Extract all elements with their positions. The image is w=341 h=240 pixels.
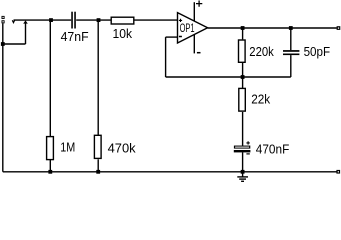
svg-text:1M: 1M <box>60 139 75 154</box>
svg-text:22k: 22k <box>251 92 271 107</box>
svg-text:OP1: OP1 <box>180 22 195 35</box>
svg-text:47nF: 47nF <box>61 29 89 44</box>
svg-text:50pF: 50pF <box>304 44 331 59</box>
svg-text:220k: 220k <box>249 44 274 59</box>
svg-text:470nF: 470nF <box>256 141 290 156</box>
svg-text:10k: 10k <box>113 26 133 41</box>
svg-text:470k: 470k <box>108 140 137 155</box>
